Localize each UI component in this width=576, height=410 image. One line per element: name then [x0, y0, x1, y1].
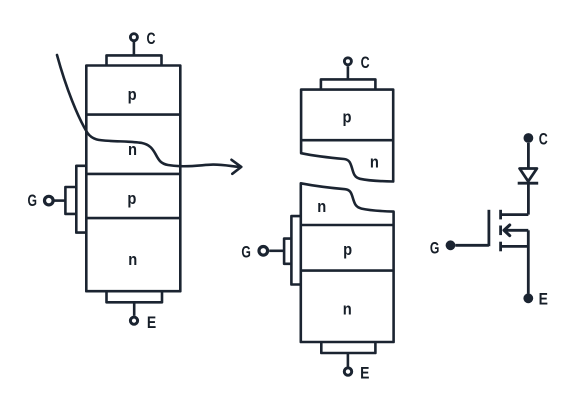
terminal G dot: [446, 240, 456, 250]
svg-text:C: C: [361, 53, 370, 72]
wire drain horizontal: [502, 213, 528, 216]
emitter contact bar: [107, 291, 163, 302]
divider n/p lower: [301, 224, 394, 227]
svg-text:p: p: [343, 108, 352, 127]
terminal G circle: [45, 196, 54, 205]
terminal G circle: [259, 247, 268, 256]
terminal E dot: [523, 293, 533, 303]
mosfet drain tick: [499, 210, 502, 220]
terminal E circle: [130, 317, 137, 324]
diode cathode bar: [518, 182, 539, 185]
arrowhead: [232, 160, 242, 174]
svg-text:C: C: [147, 29, 156, 48]
svg-text:p: p: [128, 85, 137, 104]
terminal C dot: [524, 133, 534, 143]
divider p/n upper: [301, 139, 393, 142]
terminal E circle: [344, 368, 351, 375]
wire G lead: [269, 250, 284, 253]
wire G lead: [55, 199, 66, 202]
wire C stem: [133, 42, 136, 55]
terminal C circle: [130, 34, 137, 41]
mosfet source tick: [499, 242, 502, 252]
divider n/p (middle): [86, 173, 180, 176]
divider p/n lower: [301, 269, 394, 272]
gate oxide outer bracket: [76, 166, 87, 233]
lower fragment outline: [301, 183, 394, 342]
wire source/body down to E: [527, 230, 530, 293]
gate electrode inner bracket: [284, 239, 291, 264]
upper fragment outline: [301, 90, 393, 182]
svg-text:p: p: [343, 240, 352, 259]
svg-text:n: n: [343, 300, 352, 319]
svg-text:E: E: [539, 290, 548, 309]
svg-text:G: G: [241, 243, 251, 262]
wire G lead: [455, 244, 489, 247]
svg-text:G: G: [430, 238, 440, 257]
svg-text:n: n: [370, 152, 379, 171]
curved arrow from n-layer to middle structure: [57, 55, 238, 167]
wire source horizontal: [501, 245, 529, 248]
gate electrode inner bracket: [65, 187, 76, 214]
mosfet gate plate: [487, 210, 490, 246]
svg-text:C: C: [539, 130, 548, 149]
collector contact bar: [321, 79, 376, 89]
svg-text:E: E: [147, 313, 156, 332]
emitter contact bar: [321, 342, 375, 353]
divider p/n (top): [86, 113, 180, 116]
wire C to diode: [527, 143, 530, 169]
gate oxide outer bracket: [291, 216, 300, 284]
divider p/n (bottom): [86, 217, 180, 220]
terminal C circle: [344, 58, 351, 65]
svg-text:n: n: [317, 197, 326, 216]
body arrowhead: [504, 225, 510, 236]
wire body with arrow: [505, 229, 528, 232]
body rectangle (p-n-p-n stack): [86, 66, 180, 292]
wire E stem: [133, 302, 136, 316]
diode D1 triangle: [520, 169, 537, 182]
svg-text:n: n: [128, 250, 137, 269]
svg-text:E: E: [360, 363, 369, 382]
wire diode to drain: [527, 183, 530, 214]
mosfet body tick: [499, 226, 502, 236]
svg-text:G: G: [28, 191, 38, 210]
svg-text:p: p: [127, 189, 136, 208]
wire C stem: [347, 66, 350, 79]
wire E stem: [347, 353, 350, 367]
collector contact bar: [107, 55, 162, 65]
